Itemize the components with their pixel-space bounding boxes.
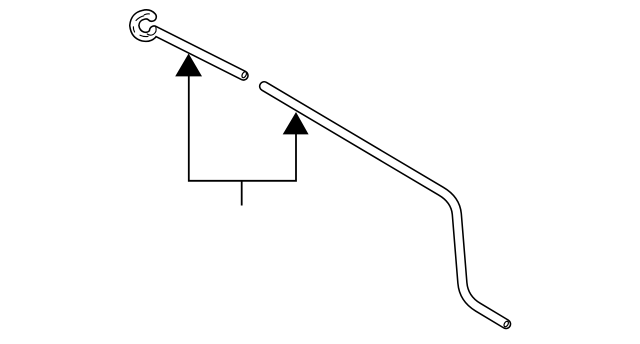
hook detail arc top-left [136,16,144,21]
arrow 1 [175,54,202,77]
callout leader line [241,181,243,206]
callout bracket line [189,70,296,181]
rod cross-section arc in hook mouth [147,27,156,35]
rod segment 2 (S-bend rod) outline [264,86,506,324]
rod 1 open end ellipse [241,71,247,78]
hook detail arc bottom [140,35,148,36]
rod 2 open end ellipse [503,321,509,328]
rod segment 1 (hooked rod) outline [154,31,244,76]
hook detail arc near tip [144,13,149,16]
hook detail arc left [133,27,134,32]
arrow 2 [283,112,309,134]
rod segment 2 white fill [264,86,506,324]
hook outline [134,14,152,36]
rod segment 1 white fill [154,31,244,76]
hook white fill [134,14,152,36]
